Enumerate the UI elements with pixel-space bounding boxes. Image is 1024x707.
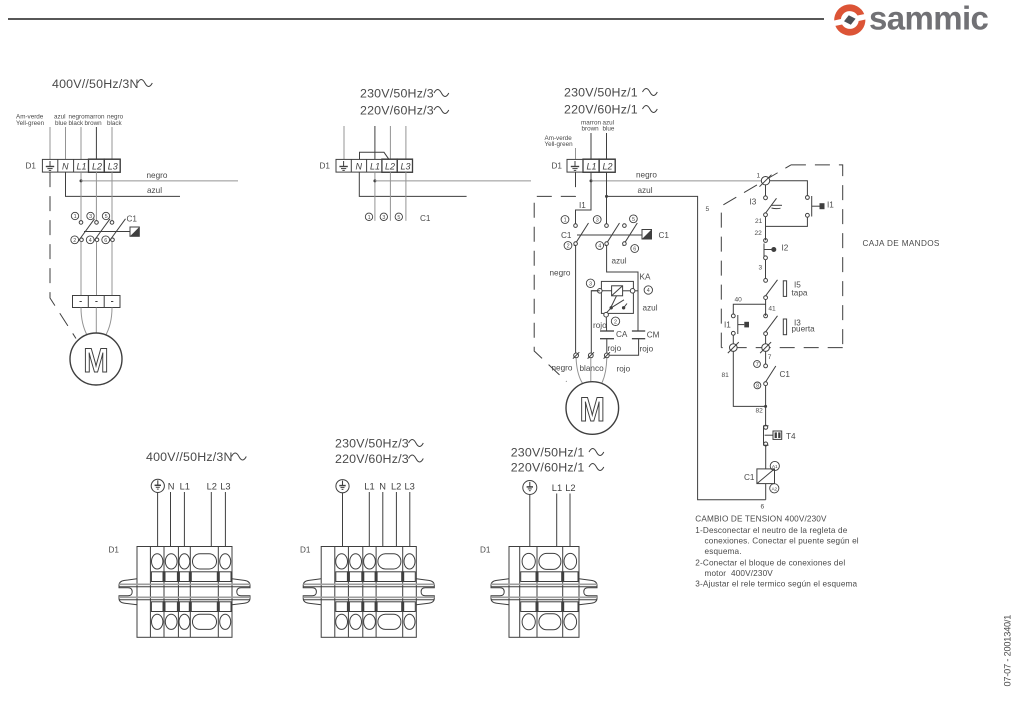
- wire L2 down: [95, 172, 97, 220]
- svg-text:tapa: tapa: [792, 289, 808, 298]
- svg-text:6: 6: [761, 504, 765, 511]
- middle rails: [119, 584, 250, 600]
- left mounting wing: [491, 579, 509, 605]
- svg-text:azul: azul: [612, 257, 627, 266]
- dashed earth wire to motor: [534, 172, 575, 381]
- lower clamp row: [151, 602, 231, 612]
- wire CM to terminal: [610, 339, 639, 356]
- svg-text:40: 40: [735, 297, 743, 304]
- svg-text:1-Desconectar el neutro de la: 1-Desconectar el neutro de la regleta de: [695, 526, 847, 535]
- sine symbol: [232, 453, 247, 460]
- earth symbol in strip: [339, 161, 347, 170]
- svg-text:L3: L3: [220, 482, 230, 492]
- lower clamp row: [336, 602, 416, 612]
- pin label A2: [770, 484, 779, 493]
- wires to bulkhead: [732, 335, 734, 344]
- control box dashed enclosure: [721, 165, 842, 348]
- svg-text:azul: azul: [643, 304, 658, 313]
- KA coil: [612, 286, 623, 296]
- svg-text:22: 22: [755, 230, 763, 237]
- sine symbol: [409, 455, 424, 462]
- svg-text:Yell-green: Yell-green: [16, 120, 45, 127]
- motor terminal blanco: [588, 352, 594, 358]
- motor terminal negro: [573, 352, 579, 358]
- operator C1 box: [642, 230, 652, 240]
- svg-text:3: 3: [382, 215, 385, 221]
- svg-text:3: 3: [89, 214, 92, 220]
- wire azul contact4 to KA and CM: [607, 245, 638, 330]
- pin label 8: [754, 382, 761, 389]
- svg-text:CAJA DE MANDOS: CAJA DE MANDOS: [863, 239, 940, 248]
- operator linkage: [577, 234, 642, 236]
- svg-text:M: M: [83, 341, 108, 379]
- upper clamp row: [521, 572, 578, 582]
- wire L1 down: [374, 172, 376, 221]
- svg-text:230V/50Hz/3: 230V/50Hz/3: [360, 87, 434, 101]
- contactor C1 top terminals: [574, 224, 627, 228]
- svg-text:KA: KA: [640, 273, 651, 282]
- jumper N to L1: [360, 152, 390, 159]
- KA wire through: [591, 290, 638, 292]
- feed wire L2 azul: [606, 133, 608, 159]
- svg-text:2: 2: [567, 244, 570, 250]
- wire CA to terminal: [606, 339, 608, 353]
- svg-text:sammic: sammic: [869, 0, 989, 37]
- pin label 7: [754, 361, 761, 368]
- pin labels 2 4 6: [71, 236, 110, 244]
- sine symbol: [643, 89, 658, 96]
- svg-text:C1: C1: [659, 231, 670, 240]
- sine symbol: [643, 106, 658, 113]
- bottom contact ovals: [522, 614, 576, 630]
- svg-text:5: 5: [105, 214, 108, 220]
- svg-text:A2: A2: [771, 486, 777, 491]
- feed wire earth: [49, 127, 51, 159]
- svg-text:5: 5: [706, 206, 710, 213]
- azul line: [607, 196, 766, 499]
- terminal block body: [137, 547, 232, 638]
- svg-text:blanco: blanco: [580, 364, 605, 373]
- upper clamp row: [336, 572, 416, 582]
- feed wire L3 negro: [111, 127, 113, 159]
- svg-text:L1: L1: [370, 161, 380, 171]
- top contact ovals: [152, 554, 231, 569]
- wire negro contact2 to motor: [575, 245, 577, 352]
- svg-text:I1: I1: [724, 321, 731, 330]
- svg-text:7: 7: [768, 354, 772, 361]
- svg-text:blue: blue: [55, 120, 67, 127]
- right mounting wing: [232, 579, 250, 605]
- top border rule: [8, 18, 824, 20]
- svg-text:C1: C1: [420, 214, 431, 223]
- earth symbol in strip: [571, 161, 579, 170]
- svg-text:CAMBIO DE TENSION 400V/230V: CAMBIO DE TENSION 400V/230V: [695, 515, 827, 524]
- svg-text:A1: A1: [772, 464, 778, 469]
- wire 81: [733, 351, 765, 406]
- left mounting wing: [119, 579, 137, 605]
- svg-text:D1: D1: [26, 162, 37, 171]
- motor wires: [576, 358, 584, 386]
- wire N to azul line: [359, 172, 466, 196]
- svg-text:motor 400V/230V: motor 400V/230V: [705, 569, 774, 578]
- svg-text:6: 6: [633, 247, 636, 253]
- wire L2 down: [389, 172, 391, 221]
- motor M: [70, 333, 122, 385]
- svg-text:L2: L2: [391, 482, 401, 492]
- feed wire earth: [575, 148, 577, 159]
- svg-text:3: 3: [589, 281, 592, 287]
- feed wire N azul: [65, 127, 67, 159]
- KA terminals: [598, 289, 635, 318]
- wire to I5: [765, 260, 767, 279]
- svg-text:negro: negro: [550, 269, 571, 278]
- svg-text:1: 1: [74, 214, 77, 220]
- pin labels 1 3 5: [365, 213, 402, 221]
- feed wire earth: [343, 126, 345, 159]
- svg-text:41: 41: [768, 306, 776, 313]
- svg-text:D1: D1: [480, 546, 491, 555]
- contactor C1 pole terminals 1 3 5: [79, 221, 114, 225]
- wire coil to node 6: [765, 484, 767, 500]
- svg-text:07-07 - 2001340/1: 07-07 - 2001340/1: [1003, 615, 1013, 687]
- svg-text:CA: CA: [616, 330, 628, 339]
- svg-text:3: 3: [759, 265, 763, 272]
- middle rails: [303, 584, 434, 600]
- switch I3 blade with fork: [766, 198, 782, 213]
- wire L3 down: [111, 172, 113, 220]
- feed wires: [343, 492, 410, 564]
- junction node: [373, 179, 376, 182]
- svg-text:L1: L1: [552, 483, 562, 493]
- negro line: [81, 180, 238, 182]
- pin label 2: [611, 317, 619, 325]
- wire L2 azul down: [606, 172, 608, 223]
- bulkhead terminal left: [728, 342, 739, 353]
- thermal relay T4: [764, 425, 797, 446]
- svg-text:blue: blue: [603, 125, 615, 132]
- svg-text:21: 21: [755, 218, 763, 225]
- relay KA box: [601, 281, 633, 313]
- push button I1: [806, 196, 835, 218]
- svg-text:81: 81: [722, 372, 730, 379]
- svg-text:3-Ajustar el rele termico segú: 3-Ajustar el rele termico según el esque…: [695, 580, 857, 589]
- svg-text:2: 2: [73, 238, 76, 244]
- svg-text:M: M: [580, 390, 605, 428]
- svg-text:400V//50Hz/3N: 400V//50Hz/3N: [146, 450, 233, 464]
- svg-text:rojo: rojo: [593, 321, 607, 330]
- svg-text:C1: C1: [561, 231, 572, 240]
- motor M: [566, 382, 619, 435]
- wire KA3 to motor blanco: [591, 291, 600, 353]
- pin labels 1 3 5: [561, 215, 637, 224]
- svg-text:rojo: rojo: [617, 365, 631, 374]
- svg-text:I3: I3: [750, 198, 757, 207]
- svg-text:L2: L2: [92, 161, 102, 171]
- svg-text:N: N: [62, 161, 69, 171]
- bulkhead terminal right: [760, 342, 771, 353]
- capacitor CM: [632, 331, 645, 339]
- svg-text:I1: I1: [579, 201, 586, 210]
- sine symbol: [409, 440, 424, 447]
- svg-text:1: 1: [564, 218, 567, 224]
- svg-text:L2: L2: [207, 482, 217, 492]
- wire to C1 aux: [765, 351, 767, 364]
- svg-text:CM: CM: [647, 331, 660, 340]
- sine symbol: [434, 107, 449, 114]
- terminal block body: [321, 547, 416, 638]
- top contact ovals: [336, 554, 415, 569]
- svg-text:conexiones. Conectar el puente: conexiones. Conectar el puente según el: [705, 537, 859, 546]
- svg-text:82: 82: [756, 408, 764, 415]
- right mounting wing: [416, 579, 434, 605]
- svg-text:1: 1: [368, 215, 371, 221]
- middle rails: [491, 584, 597, 600]
- svg-text:L2: L2: [603, 161, 613, 171]
- sammic logo: [832, 0, 989, 38]
- svg-text:I1: I1: [827, 201, 834, 210]
- svg-text:230V/50Hz/1: 230V/50Hz/1: [511, 446, 585, 460]
- C1 aux contact: [764, 364, 791, 386]
- svg-text:220V/60Hz/1: 220V/60Hz/1: [511, 461, 585, 475]
- svg-text:rojo: rojo: [640, 345, 654, 354]
- svg-text:Yell-green: Yell-green: [545, 141, 574, 148]
- svg-text:negro: negro: [552, 364, 573, 373]
- svg-text:5: 5: [632, 217, 635, 223]
- wire N to azul line: [66, 172, 181, 196]
- svg-text:7: 7: [756, 362, 759, 368]
- pin label 3: [586, 279, 594, 287]
- feed wire L2 marron: [95, 127, 97, 159]
- wire KA2 to CA: [605, 317, 607, 331]
- wire to node 40-41: [765, 300, 767, 316]
- svg-text:C1: C1: [780, 370, 791, 379]
- svg-text:C1: C1: [744, 473, 755, 482]
- svg-text:C1: C1: [127, 214, 138, 223]
- svg-text:2: 2: [614, 319, 617, 325]
- motor wires: [81, 308, 88, 337]
- wire to coil: [765, 446, 767, 469]
- capacitor CA: [600, 331, 614, 339]
- contactor blades: [574, 223, 637, 246]
- upper clamp row: [151, 572, 231, 582]
- svg-text:220V/60Hz/3: 220V/60Hz/3: [360, 104, 434, 118]
- feed wire L1 marron: [590, 133, 592, 159]
- contactor lower terminals 2 4 6: [574, 242, 626, 246]
- wires to overload relay: [80, 242, 82, 296]
- svg-text:2-Conectar el bloque de conexi: 2-Conectar el bloque de conexiones del: [695, 559, 845, 568]
- junction node: [590, 179, 593, 182]
- terminal strip D1: [42, 159, 120, 172]
- svg-text:L3: L3: [405, 482, 415, 492]
- node 1 bulkhead terminal: [760, 175, 772, 187]
- svg-text:azul: azul: [147, 186, 162, 195]
- feed wires: [530, 494, 570, 565]
- svg-text:black: black: [107, 120, 123, 127]
- junction node: [605, 195, 608, 198]
- sine symbol: [138, 80, 153, 87]
- overload relay block: [73, 296, 121, 308]
- svg-text:D1: D1: [552, 162, 563, 171]
- switch I3 puerta: [764, 314, 815, 336]
- feed wire L1 negro: [80, 127, 82, 159]
- svg-text:5: 5: [397, 215, 400, 221]
- svg-text:8: 8: [756, 383, 759, 389]
- operator linkage: [84, 231, 130, 233]
- push button I2: [764, 239, 789, 260]
- svg-text:rojo: rojo: [608, 344, 622, 353]
- svg-text:D1: D1: [109, 546, 120, 555]
- earth symbol in strip: [46, 161, 54, 170]
- pin labels 2 4 6: [564, 242, 639, 253]
- lower clamp row: [521, 602, 578, 612]
- terminal strip D1: [336, 159, 413, 172]
- pin labels 1 3 5: [71, 212, 109, 220]
- svg-text:220V/60Hz/3: 220V/60Hz/3: [335, 452, 409, 466]
- svg-text:230V/50Hz/3: 230V/50Hz/3: [335, 437, 409, 451]
- earth terminal symbol: [151, 479, 164, 492]
- motor terminal rojo: [604, 352, 610, 358]
- svg-text:black: black: [69, 120, 85, 127]
- svg-text:D1: D1: [300, 546, 311, 555]
- sine symbol: [589, 449, 604, 456]
- svg-text:L2: L2: [385, 161, 395, 171]
- wire L3 down: [405, 172, 407, 221]
- pin label A1: [770, 461, 779, 470]
- svg-text:puerta: puerta: [792, 325, 816, 334]
- svg-text:negro: negro: [147, 171, 168, 180]
- feed wires: [158, 492, 226, 564]
- svg-text:N: N: [168, 482, 175, 492]
- pin label 4: [644, 286, 652, 294]
- svg-text:L1: L1: [180, 482, 190, 492]
- junction node: [80, 179, 83, 182]
- svg-text:6: 6: [104, 238, 107, 244]
- svg-text:L1: L1: [587, 161, 597, 171]
- feed wire L2: [389, 126, 391, 159]
- feed wire L3: [405, 126, 407, 159]
- svg-text:T4: T4: [786, 432, 796, 441]
- bottom contact ovals: [152, 614, 231, 629]
- svg-text:N: N: [379, 482, 386, 492]
- terminal block body: [509, 547, 579, 638]
- svg-text:L3: L3: [401, 161, 411, 171]
- switch I3 contacts: [764, 196, 768, 217]
- operator C1 box: [130, 227, 139, 236]
- contactor lower terminals 2 4 6: [80, 238, 115, 242]
- wire L1 down: [80, 172, 82, 220]
- top contact ovals: [522, 553, 576, 569]
- feed wire L1: [374, 126, 376, 159]
- terminal strip D1: [567, 159, 615, 172]
- contactor coil C1: [744, 469, 775, 484]
- svg-text:L2: L2: [565, 483, 575, 493]
- svg-text:230V/50Hz/1: 230V/50Hz/1: [564, 86, 638, 100]
- wire to node 82: [765, 386, 767, 426]
- earth terminal symbol: [523, 481, 537, 495]
- right mounting wing: [579, 579, 597, 605]
- negro line to control box: [591, 180, 762, 182]
- svg-text:L1: L1: [77, 161, 87, 171]
- negro line: [375, 180, 531, 182]
- svg-text:I2: I2: [782, 244, 789, 253]
- bottom contact ovals: [336, 614, 415, 629]
- svg-text:4: 4: [89, 238, 92, 244]
- sine symbol: [589, 464, 604, 471]
- svg-text:L1: L1: [364, 482, 374, 492]
- svg-text:D1: D1: [320, 162, 331, 171]
- svg-text:L3: L3: [108, 161, 118, 171]
- push button I1 left: [724, 314, 749, 335]
- left mounting wing: [303, 579, 321, 605]
- limit switch I5 tapa: [764, 279, 808, 300]
- dashed earth wire to motor: [50, 172, 76, 338]
- wire L1 to contact 1: [576, 172, 592, 223]
- earth terminal symbol: [336, 480, 349, 493]
- contactor blades: [78, 219, 126, 242]
- svg-text:brown: brown: [85, 120, 103, 127]
- svg-text:brown: brown: [582, 125, 600, 132]
- sine symbol: [434, 90, 449, 97]
- wire I3/I1 to node 21-22: [765, 217, 767, 241]
- wire node1 down: [765, 185, 767, 196]
- svg-text:400V//50Hz/3N: 400V//50Hz/3N: [52, 77, 139, 91]
- svg-text:3: 3: [596, 218, 599, 224]
- KA internal contact: [607, 296, 628, 313]
- svg-text:220V/60Hz/1: 220V/60Hz/1: [564, 103, 638, 117]
- svg-text:4: 4: [647, 288, 650, 294]
- svg-text:negro: negro: [636, 171, 657, 180]
- svg-text:N: N: [356, 161, 363, 171]
- svg-text:4: 4: [598, 244, 601, 250]
- svg-text:1: 1: [757, 173, 761, 180]
- svg-text:esquema.: esquema.: [705, 547, 742, 556]
- svg-text:azul: azul: [638, 186, 653, 195]
- wire node1 to I1: [770, 181, 808, 196]
